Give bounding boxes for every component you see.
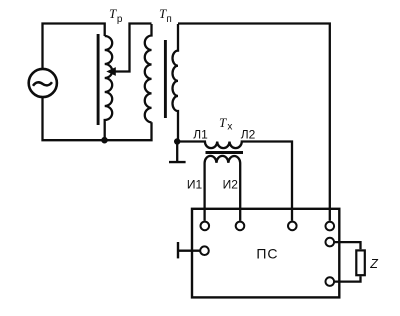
wire: top run to PS right column [178, 24, 330, 221]
electrode bar [177, 242, 179, 258]
terminal И1 [201, 222, 210, 231]
transformer Tn primary winding [145, 24, 152, 122]
junction dot on bottom wire [101, 137, 108, 144]
sine wave [33, 82, 52, 86]
svg-text:И2: И2 [223, 177, 239, 191]
resistor Z [356, 250, 365, 275]
CT Tx primary winding Л1-Л2 wire [177, 142, 292, 221]
svg-text:ПС: ПС [256, 245, 278, 261]
Tn core bar [164, 40, 167, 118]
terminal Z lower [326, 277, 335, 286]
svg-text:Л1: Л1 [193, 127, 208, 141]
svg-text:T: T [109, 6, 117, 21]
svg-text:И1: И1 [187, 177, 203, 191]
svg-text:х: х [227, 122, 232, 133]
terminal И2 [236, 222, 245, 231]
Tx core bar [206, 151, 244, 154]
svg-text:Z: Z [369, 257, 378, 271]
Tp wiper arrowhead [106, 67, 116, 76]
terminal probe [200, 246, 209, 255]
PS box [192, 209, 339, 298]
terminal Л2 [288, 222, 297, 231]
Tp wiper arrow wire [115, 24, 152, 72]
ground [176, 142, 178, 162]
terminal Z upper [326, 238, 335, 247]
node: junction dot at ground [174, 138, 180, 144]
svg-text:п: п [166, 14, 171, 25]
svg-text:р: р [117, 14, 123, 25]
Tn secondary winding [173, 24, 178, 142]
wire: AC loop top [43, 24, 105, 70]
svg-text:Л2: Л2 [241, 127, 256, 141]
wire from load Z bottom [335, 276, 361, 281]
wire to load Z top [335, 242, 361, 249]
wire: AC loop bottom [43, 97, 152, 141]
Tp core bar [97, 34, 100, 125]
svg-text:T: T [219, 115, 227, 130]
electrode probe wire [178, 250, 200, 252]
autotransformer Tp winding [105, 36, 113, 140]
CT Tx secondary winding И1-И2 [205, 156, 241, 221]
AC source G1 [29, 69, 57, 97]
terminal right top [326, 222, 335, 231]
